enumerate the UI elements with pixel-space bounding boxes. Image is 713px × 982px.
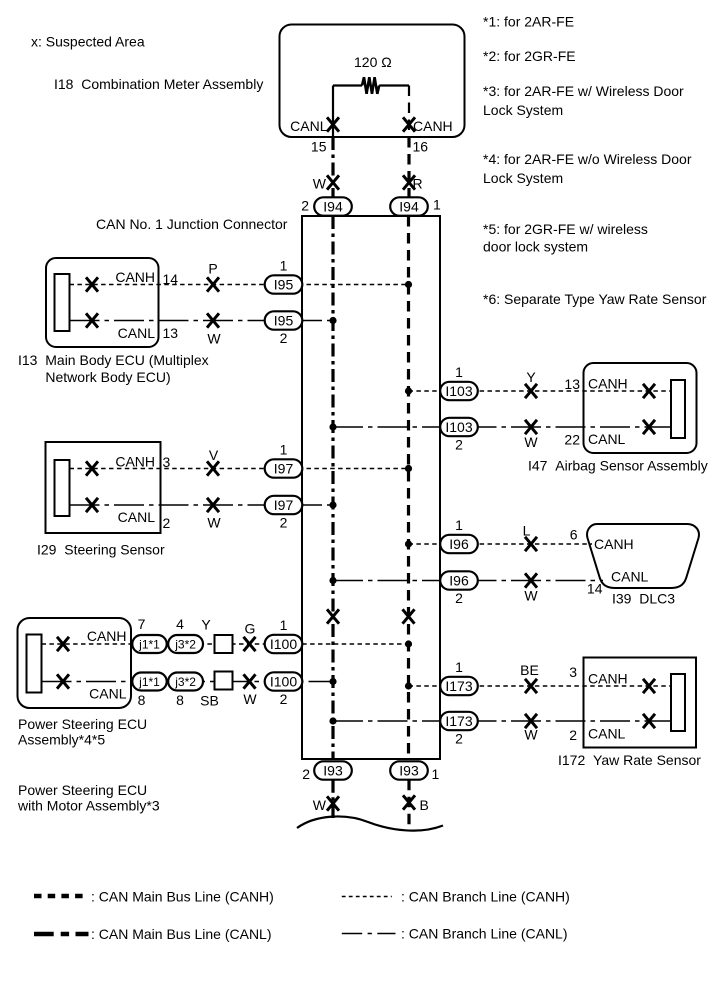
svg-text:CANL: CANL — [290, 118, 328, 134]
svg-text:W: W — [313, 797, 327, 813]
connector I93 pin 2 oval — [314, 761, 352, 779]
svg-text:3: 3 — [163, 454, 171, 470]
svg-text:CAN No. 1 Junction Connector: CAN No. 1 Junction Connector — [96, 216, 288, 232]
connector I94 pin 2 oval — [314, 197, 352, 215]
svg-text:x: Suspected Area: x: Suspected Area — [31, 34, 145, 50]
svg-text:I94: I94 — [323, 199, 343, 215]
svg-text:V: V — [209, 447, 219, 463]
svg-text:with Motor Assembly*3: with Motor Assembly*3 — [17, 798, 160, 814]
X suspect mark PS CANH — [57, 637, 69, 651]
svg-text:: CAN Main Bus Line (CANH): : CAN Main Bus Line (CANH) — [91, 889, 274, 905]
svg-text:2: 2 — [301, 198, 309, 214]
box I18 combination meter assembly — [280, 25, 465, 138]
node I100 CANL to bus junction dot — [329, 678, 336, 685]
connector I97 pin 2 oval — [265, 496, 303, 514]
svg-text:6: 6 — [570, 527, 578, 543]
svg-text:I100: I100 — [270, 636, 297, 652]
svg-text:1: 1 — [455, 659, 463, 675]
node I97 CANH to bus junction dot — [405, 465, 412, 472]
wire CANL branch I29 to CANL bus (row y=505) — [70, 504, 334, 506]
svg-text:G: G — [245, 621, 256, 637]
svg-text:*6: Separate Type Yaw Rate Sen: *6: Separate Type Yaw Rate Sensor — [483, 291, 707, 307]
X suspect mark I172 CANL — [643, 714, 655, 728]
box I172 Yaw Rate Sensor — [584, 658, 697, 748]
svg-text:CANH: CANH — [115, 269, 155, 285]
X suspect mark wire G — [244, 637, 256, 651]
svg-text:: CAN Main Bus Line (CANL): : CAN Main Bus Line (CANL) — [91, 926, 272, 942]
node I96 CANL bus junction dot — [329, 577, 336, 584]
wire CANL branch bus to DLC3 (row y=580.5) — [333, 580, 603, 582]
connector I93 pin 1 oval — [390, 761, 428, 779]
connector j3*2 row1 oval — [168, 635, 203, 653]
X suspect mark on CANH bus — [403, 609, 415, 623]
legend branch CANH sample — [342, 896, 392, 898]
svg-text:I97: I97 — [274, 497, 294, 513]
X suspect mark wire Y — [525, 384, 537, 398]
wire CANH branch bus to I172 (row y=686) — [409, 685, 672, 687]
svg-text:I94: I94 — [399, 199, 419, 215]
X suspect mark wire W — [327, 175, 339, 189]
svg-text:Assembly*4*5: Assembly*4*5 — [18, 732, 105, 748]
connector j3*2 row2 oval — [168, 673, 203, 691]
connector square row2 — [215, 672, 233, 690]
svg-text:I13 Main Body ECU (Multiplex: I13 Main Body ECU (Multiplex — [18, 352, 209, 368]
svg-text:W: W — [207, 331, 221, 347]
wire W main bus CANL from meter to I94 — [331, 137, 334, 198]
bus CANL main bus line (left vertical) — [331, 216, 334, 759]
connector pins I29 — [55, 460, 70, 516]
X suspect mark wire W (PS CANL) — [244, 674, 256, 688]
svg-text:1: 1 — [280, 442, 288, 458]
svg-text:j3*2: j3*2 — [174, 638, 196, 652]
connector I95 pin 1 oval — [265, 275, 303, 293]
wire CANL branch PS ECU to CANL bus (row y=681.5) — [42, 681, 334, 683]
svg-text:: CAN Branch Line (CANH): : CAN Branch Line (CANH) — [401, 889, 570, 905]
wire resistor left lead — [333, 84, 362, 86]
svg-text:1: 1 — [280, 617, 288, 633]
X suspect mark wire B — [403, 795, 415, 809]
svg-text:2: 2 — [280, 330, 288, 346]
svg-text:I93: I93 — [399, 763, 419, 779]
X suspect mark wire W (bottom) — [327, 796, 339, 810]
wire CANH branch PS ECU to CANH bus (row y=644) — [42, 643, 409, 645]
X suspect mark wire P — [207, 277, 219, 291]
svg-text:CANH: CANH — [594, 536, 634, 552]
svg-text:15: 15 — [311, 139, 327, 155]
svg-text:j3*2: j3*2 — [174, 675, 196, 689]
wire break wavy line — [297, 816, 443, 830]
box I47 Airbag Sensor Assembly — [584, 363, 697, 453]
svg-text:CANH: CANH — [588, 671, 628, 687]
connector pins I47 — [671, 380, 685, 438]
X suspect mark wire L — [525, 537, 537, 551]
svg-text:W: W — [524, 727, 538, 743]
svg-text:I96: I96 — [449, 573, 469, 589]
svg-text:13: 13 — [163, 325, 179, 341]
svg-text:j1*1: j1*1 — [138, 675, 160, 689]
svg-text:Y: Y — [201, 617, 211, 633]
svg-text:I103: I103 — [445, 419, 472, 435]
svg-text:I95: I95 — [274, 277, 294, 293]
bus CANH main bus line (right vertical) — [407, 216, 410, 759]
connector pins I13 — [55, 274, 70, 331]
svg-text:Lock System: Lock System — [483, 102, 563, 118]
svg-text:: CAN Branch Line (CANL): : CAN Branch Line (CANL) — [401, 926, 568, 942]
X suspect mark wire W (I29 CANL) — [207, 498, 219, 512]
connector I173 pin 1 oval — [440, 677, 478, 695]
X suspect mark on CANL bus — [327, 609, 339, 623]
X suspect mark PS CANL — [57, 674, 69, 688]
svg-text:I103: I103 — [445, 383, 472, 399]
svg-text:2: 2 — [302, 766, 310, 782]
connector I97 pin 1 oval — [265, 459, 303, 477]
box I29 Steering Sensor — [46, 442, 161, 533]
svg-text:j1*1: j1*1 — [138, 638, 160, 652]
svg-text:CANL: CANL — [588, 431, 626, 447]
node I100 CANH to bus junction dot — [405, 640, 412, 647]
svg-text:Network Body ECU): Network Body ECU) — [45, 369, 170, 385]
X suspect mark wire BE — [525, 679, 537, 693]
wire B main bus CANH below I93 — [407, 780, 410, 830]
connector I103 pin 2 oval — [440, 418, 478, 436]
X suspect mark wire R — [403, 175, 415, 189]
wire R main bus CANH from meter to I94 — [407, 137, 410, 198]
svg-text:door lock system: door lock system — [483, 239, 588, 255]
svg-text:120 Ω: 120 Ω — [354, 54, 392, 70]
svg-text:I173: I173 — [445, 678, 472, 694]
connector I94 pin 1 oval — [390, 197, 428, 215]
svg-text:CANH: CANH — [588, 376, 628, 392]
svg-text:SB: SB — [200, 693, 219, 709]
connector pins I172 — [671, 674, 685, 731]
wire CANH branch I29 to CANH bus (row y=468.5) — [70, 468, 409, 470]
svg-text:W: W — [524, 588, 538, 604]
connector I173 pin 2 oval — [440, 712, 478, 730]
svg-text:2: 2 — [455, 730, 463, 746]
wire CANH branch bus to I47 (row y=391) — [409, 390, 672, 392]
svg-text:8: 8 — [138, 692, 146, 708]
svg-text:R: R — [413, 176, 423, 192]
wire CANH branch bus to DLC3 (row y=544) — [409, 543, 593, 545]
box Power Steering ECU Assembly — [18, 618, 132, 708]
node I96 CANH bus junction dot — [405, 540, 412, 547]
svg-text:I100: I100 — [270, 674, 297, 690]
X suspect mark I29 CANL — [86, 498, 98, 512]
svg-text:W: W — [207, 515, 221, 531]
svg-text:2: 2 — [569, 727, 577, 743]
svg-text:16: 16 — [413, 139, 429, 155]
wire CANH vertical inside meter box (dashed) — [408, 86, 410, 138]
svg-text:I96: I96 — [449, 536, 469, 552]
svg-text:B: B — [420, 797, 429, 813]
wire CANL branch bus to I172 (row y=721) — [333, 720, 671, 722]
wire resistor right lead — [379, 84, 409, 86]
X suspect mark CANH pin 16 — [403, 117, 415, 131]
svg-text:BE: BE — [520, 662, 539, 678]
box I13 Main Body ECU — [46, 258, 159, 347]
svg-text:CANH: CANH — [115, 454, 155, 470]
resistor 120 ohm zigzag — [362, 77, 379, 94]
svg-text:22: 22 — [564, 432, 580, 448]
svg-text:7: 7 — [138, 616, 146, 632]
svg-text:W: W — [243, 691, 257, 707]
svg-text:I97: I97 — [274, 461, 294, 477]
svg-text:CANL: CANL — [611, 569, 649, 585]
svg-text:2: 2 — [455, 590, 463, 606]
svg-text:CANH: CANH — [413, 118, 453, 134]
connector I100 pin 2 oval — [265, 672, 303, 690]
svg-text:L: L — [523, 523, 531, 539]
X suspect mark wire W (I103) — [525, 420, 537, 434]
svg-text:I18 Combination Meter Assembl: I18 Combination Meter Assembly — [54, 76, 263, 92]
svg-text:Y: Y — [526, 369, 536, 385]
svg-text:W: W — [313, 176, 327, 192]
svg-text:I47 Airbag Sensor Assembly: I47 Airbag Sensor Assembly — [528, 458, 708, 474]
svg-text:13: 13 — [564, 376, 580, 392]
box CAN No.1 junction connector — [302, 216, 440, 759]
svg-text:14: 14 — [163, 271, 179, 287]
svg-text:14: 14 — [587, 581, 603, 597]
wire CANH branch I13 to CANH bus (row y=284.5) — [70, 284, 409, 286]
connector square row1 — [215, 635, 233, 653]
X suspect mark wire W (I13 CANL) — [207, 313, 219, 327]
wire W main bus CANL below I93 — [331, 780, 334, 818]
svg-text:2: 2 — [280, 691, 288, 707]
legend main bus CANL sample — [34, 932, 89, 937]
connector I100 pin 1 oval — [265, 635, 303, 653]
X suspect mark CANL pin 15 — [327, 117, 339, 131]
svg-text:Lock System: Lock System — [483, 170, 563, 186]
svg-text:CANL: CANL — [588, 726, 626, 742]
node I95 CANH to bus junction dot — [405, 281, 412, 288]
svg-text:*2: for 2GR-FE: *2: for 2GR-FE — [483, 48, 576, 64]
svg-text:1: 1 — [455, 517, 463, 533]
svg-text:I39 DLC3: I39 DLC3 — [612, 591, 675, 607]
node I103 CANL bus junction dot — [329, 423, 336, 430]
legend main bus CANH sample — [34, 894, 85, 899]
X suspect mark wire W (I96) — [525, 573, 537, 587]
svg-text:I93: I93 — [323, 763, 343, 779]
connector I103 pin 1 oval — [440, 382, 478, 400]
svg-text:2: 2 — [455, 436, 463, 452]
node I103 CANH bus junction dot — [405, 387, 412, 394]
svg-text:P: P — [208, 261, 217, 277]
svg-text:*4: for 2AR-FE w/o Wireless Do: *4: for 2AR-FE w/o Wireless Door — [483, 151, 692, 167]
svg-text:CANL: CANL — [89, 686, 127, 702]
svg-text:I172 Yaw Rate Sensor: I172 Yaw Rate Sensor — [558, 752, 701, 768]
svg-text:CANL: CANL — [118, 325, 156, 341]
X suspect mark I13 CANL — [86, 313, 98, 327]
connector pins PS ECU — [27, 635, 42, 693]
svg-text:2: 2 — [280, 514, 288, 530]
node I95 CANL to bus junction dot — [329, 317, 336, 324]
svg-text:8: 8 — [176, 692, 184, 708]
svg-text:3: 3 — [569, 664, 577, 680]
svg-text:Power Steering ECU: Power Steering ECU — [18, 782, 147, 798]
wire CANL branch I13 to CANL bus (row y=320.5) — [70, 320, 334, 322]
connector I95 pin 2 oval — [265, 311, 303, 329]
connector j1*1 row1 oval — [132, 635, 166, 653]
svg-text:*5: for 2GR-FE w/ wireless: *5: for 2GR-FE w/ wireless — [483, 221, 648, 237]
svg-text:I173: I173 — [445, 713, 472, 729]
svg-text:2: 2 — [163, 515, 171, 531]
X suspect mark I47 CANL — [643, 420, 655, 434]
X suspect mark wire W (I173) — [525, 714, 537, 728]
node I173 CANH bus junction dot — [405, 682, 412, 689]
svg-text:1: 1 — [432, 766, 440, 782]
node I173 CANL bus junction dot — [329, 717, 336, 724]
legend branch CANL sample — [342, 933, 396, 935]
svg-text:Power Steering ECU: Power Steering ECU — [18, 716, 147, 732]
connector I96 pin 2 oval — [440, 571, 478, 589]
connector j1*1 row2 oval — [132, 673, 166, 691]
svg-text:CANH: CANH — [87, 628, 127, 644]
node I97 CANL to bus junction dot — [329, 501, 336, 508]
svg-text:CANL: CANL — [118, 509, 156, 525]
X suspect mark I13 CANH — [86, 277, 98, 291]
svg-text:I29 Steering Sensor: I29 Steering Sensor — [37, 542, 165, 558]
X suspect mark I172 CANH — [643, 679, 655, 693]
svg-text:W: W — [524, 434, 538, 450]
svg-text:1: 1 — [280, 258, 288, 274]
svg-text:*3: for 2AR-FE w/ Wireless Doo: *3: for 2AR-FE w/ Wireless Door — [483, 83, 684, 99]
wire CANL branch bus to I47 (row y=427) — [333, 426, 671, 428]
svg-text:1: 1 — [455, 364, 463, 380]
box I39 DLC3 (trapezoid) — [587, 524, 699, 588]
X suspect mark I29 CANH — [86, 461, 98, 475]
connector I96 pin 1 oval — [440, 535, 478, 553]
svg-text:1: 1 — [433, 197, 441, 213]
svg-text:4: 4 — [176, 616, 184, 632]
X suspect mark I47 CANH — [643, 384, 655, 398]
svg-text:I95: I95 — [274, 313, 294, 329]
wire CANL vertical inside meter box — [332, 86, 334, 138]
X suspect mark wire V — [207, 461, 219, 475]
svg-text:*1: for 2AR-FE: *1: for 2AR-FE — [483, 14, 574, 30]
